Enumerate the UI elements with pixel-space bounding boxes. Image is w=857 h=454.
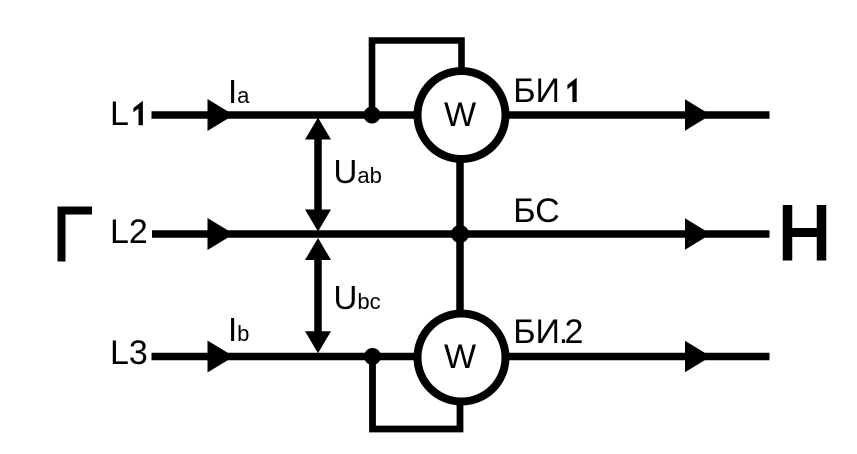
svg-text:БИ: БИ <box>513 313 560 351</box>
arrow L3 right <box>685 341 711 372</box>
svg-text:БИ: БИ <box>513 72 560 110</box>
wire L1 right segment <box>505 111 770 119</box>
arrow L2 left <box>208 218 234 250</box>
wire L3 right segment <box>505 353 770 361</box>
svg-text:L3: L3 <box>110 334 148 372</box>
arrow L3 left <box>208 341 234 373</box>
node dot on L2 <box>451 225 469 243</box>
stem wire circle1-L2-circle2 <box>456 155 464 315</box>
svg-text:W: W <box>444 96 476 134</box>
wire L1 left segment <box>152 111 419 119</box>
svg-text:2: 2 <box>565 313 584 351</box>
voltage arrow Ubc <box>305 238 331 353</box>
wattmeter U2 circle <box>418 314 506 402</box>
svg-text:БС: БС <box>513 192 559 230</box>
wire L2 <box>152 230 770 238</box>
svg-text:L: L <box>110 95 129 133</box>
node dot on L3 <box>364 348 381 365</box>
voltage arrow Uab <box>305 118 331 232</box>
svg-text:W: W <box>444 338 476 376</box>
svg-text:L2: L2 <box>110 213 148 251</box>
load terminal Н <box>785 205 824 261</box>
arrow L1 left <box>208 99 234 131</box>
node dot on L1 <box>364 107 381 124</box>
wire L3 left segment <box>152 353 419 361</box>
arrow L1 right <box>685 99 711 130</box>
jumper wire bottom (voltage tap of wattmeter 2) <box>373 357 461 430</box>
generator terminal Г <box>62 211 93 262</box>
arrow L2 right <box>685 218 711 249</box>
wattmeter U1 circle <box>418 71 506 159</box>
jumper wire top (voltage tap of wattmeter 1) <box>372 41 462 116</box>
